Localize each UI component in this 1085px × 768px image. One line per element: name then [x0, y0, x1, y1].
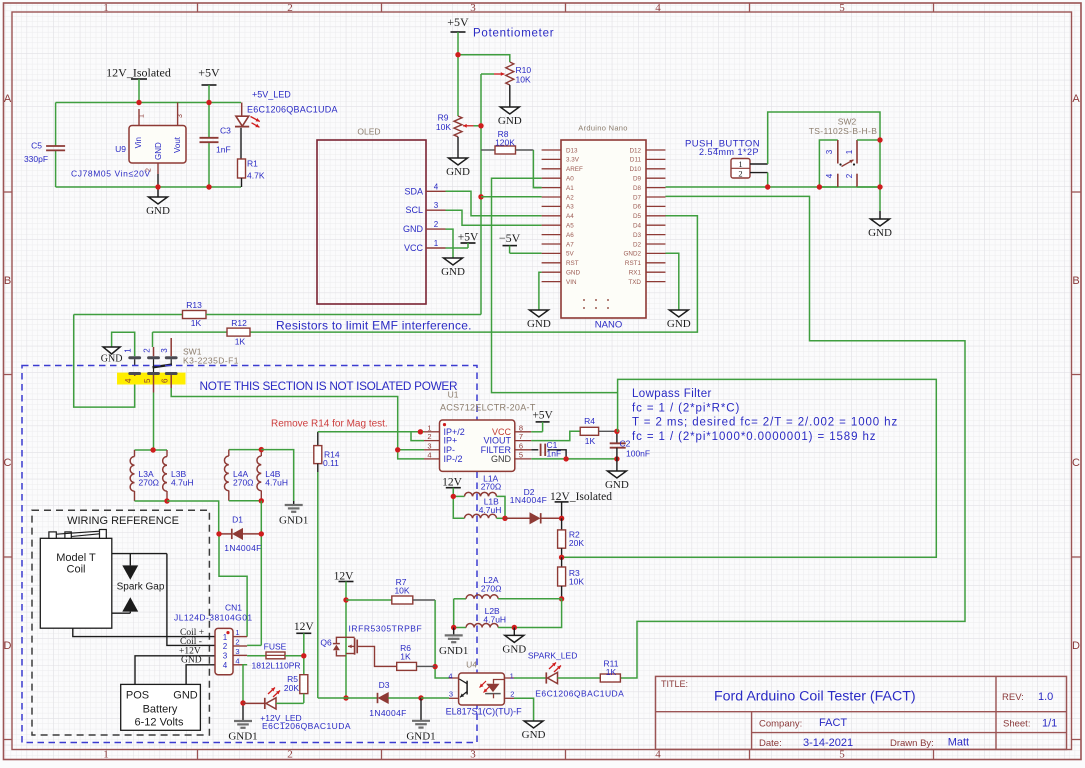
- ground GND under U9: [146, 187, 170, 217]
- svg-text:SDA: SDA: [404, 186, 423, 196]
- svg-text:C5: C5: [31, 141, 42, 151]
- wire push button pin2 to D8: [767, 173, 769, 187]
- svg-text:fc = 1 / (2*pi*R*C): fc = 1 / (2*pi*R*C): [632, 402, 740, 414]
- svg-text:Lowpass Filter: Lowpass Filter: [632, 388, 712, 400]
- wire U9 GND pin: [157, 174, 159, 187]
- svg-text:Q6: Q6: [320, 638, 332, 648]
- svg-text:GND1: GND1: [228, 731, 257, 743]
- svg-text:4: 4: [427, 450, 431, 459]
- svg-text:SCL: SCL: [405, 205, 423, 215]
- svg-text:4: 4: [655, 2, 661, 14]
- mcu NANO Arduino Nano: [542, 124, 666, 331]
- svg-text:1: 1: [845, 149, 854, 154]
- svg-text:120K: 120K: [495, 137, 515, 147]
- svg-text:D6: D6: [633, 204, 642, 211]
- svg-text:+5V: +5V: [447, 15, 469, 29]
- svg-text:FUSE: FUSE: [264, 642, 287, 652]
- svg-text:GND: GND: [403, 224, 424, 234]
- inductor L3A L3B: [130, 447, 194, 503]
- power flag 12V_Isolated at R2: [550, 491, 612, 521]
- svg-text:Battery: Battery: [143, 704, 178, 716]
- svg-text:D: D: [4, 640, 12, 652]
- resistor R2: [558, 518, 585, 560]
- svg-text:1/1: 1/1: [1042, 717, 1057, 729]
- svg-text:D4: D4: [633, 223, 642, 230]
- dashed box non-isolated section: [22, 366, 477, 743]
- svg-text:0.11: 0.11: [323, 458, 339, 468]
- svg-text:Vin: Vin: [134, 137, 143, 148]
- potentiometer R10: [481, 62, 531, 85]
- transformer L2A L2B: [451, 575, 562, 630]
- wire GND battery to CN1: [186, 665, 215, 685]
- svg-text:A: A: [4, 93, 12, 105]
- text Remove R14: [271, 419, 388, 430]
- svg-text:4: 4: [124, 378, 133, 383]
- svg-text:4: 4: [448, 671, 452, 680]
- svg-text:GND: GND: [154, 142, 163, 160]
- svg-text:A4: A4: [566, 213, 574, 220]
- svg-text:1: 1: [223, 633, 228, 642]
- resistor R1: [238, 159, 265, 188]
- text Potentiometer: [473, 28, 554, 40]
- power flag +5V at U1 VCC: [531, 409, 553, 432]
- svg-text:D12: D12: [629, 147, 641, 154]
- ground GND under U4: [522, 721, 546, 741]
- capacitor C3: [200, 103, 232, 188]
- svg-text:Arduino Nano: Arduino Nano: [578, 124, 627, 133]
- svg-text:4: 4: [825, 173, 834, 178]
- wire R14 bottom rail: [318, 472, 346, 698]
- wire A1 stub: [533, 187, 541, 189]
- ground GND under Arduino left: [527, 310, 551, 330]
- svg-text:A: A: [1072, 93, 1080, 105]
- capacitor C5: [24, 141, 65, 165]
- svg-text:T = 2 ms; desired fc= 2/T = 2/: T = 2 ms; desired fc= 2/T = 2/.002 = 100…: [632, 417, 898, 429]
- svg-text:270Ω: 270Ω: [233, 478, 254, 488]
- svg-text:D2: D2: [633, 241, 642, 248]
- svg-text:4.7uH: 4.7uH: [265, 478, 288, 488]
- svg-text:1nF: 1nF: [216, 145, 231, 155]
- wire GND2 pin: [666, 253, 679, 310]
- svg-text:GND: GND: [667, 318, 691, 330]
- svg-text:TITLE:: TITLE:: [661, 679, 688, 689]
- wire GND rail bottom: [56, 186, 241, 188]
- svg-text:VIN: VIN: [566, 279, 577, 286]
- power flag 12V at L1: [442, 477, 463, 497]
- wire SW1 pin1 to GND: [112, 332, 135, 356]
- resistor R13: [74, 300, 481, 328]
- svg-text:Ford Arduino Coil Tester (FACT: Ford Arduino Coil Tester (FACT): [714, 689, 916, 705]
- svg-text:IP-/2: IP-/2: [444, 454, 463, 464]
- svg-text:AREF: AREF: [566, 166, 583, 173]
- svg-text:GND: GND: [522, 729, 546, 741]
- svg-text:10K: 10K: [436, 122, 451, 132]
- svg-text:POS: POS: [126, 689, 149, 701]
- svg-text:1K: 1K: [606, 667, 617, 677]
- svg-text:1: 1: [738, 159, 742, 169]
- svg-text:5V: 5V: [566, 251, 575, 258]
- svg-text:3: 3: [177, 114, 184, 118]
- svg-text:D11: D11: [630, 157, 642, 164]
- svg-text:1K: 1K: [585, 436, 596, 446]
- svg-text:3: 3: [825, 149, 834, 154]
- svg-text:D5: D5: [633, 213, 642, 220]
- svg-text:8: 8: [519, 423, 523, 432]
- svg-text:4.7uH: 4.7uH: [483, 615, 506, 625]
- svg-text:100nF: 100nF: [626, 449, 650, 459]
- svg-text:Potentiometer: Potentiometer: [473, 28, 554, 40]
- wire U1 IP- pair: [395, 447, 424, 459]
- svg-text:A5: A5: [566, 223, 574, 230]
- wire wiper bus vertical: [480, 74, 482, 315]
- inductor L4A L4B: [224, 447, 288, 504]
- svg-text:ACS712ELCTR-20A-T: ACS712ELCTR-20A-T: [440, 403, 536, 413]
- power flag +5V at OLED VCC: [458, 232, 479, 249]
- svg-text:A2: A2: [566, 194, 574, 201]
- svg-text:2: 2: [223, 642, 228, 651]
- svg-text:10K: 10K: [516, 75, 531, 85]
- text resistors note: [276, 319, 472, 333]
- regulator U9: [71, 103, 186, 179]
- power flag -5V at A7: [499, 231, 521, 253]
- svg-text:GND: GND: [181, 655, 202, 665]
- resistor R8: [481, 129, 533, 154]
- ground GND under L2B: [502, 628, 526, 656]
- svg-text:B: B: [4, 275, 11, 287]
- svg-text:GND: GND: [446, 166, 470, 178]
- svg-text:4.7uH: 4.7uH: [479, 505, 502, 515]
- svg-text:A0: A0: [566, 176, 574, 183]
- ground GND1 under CN1: [228, 721, 257, 743]
- svg-text:IRFR5305TRPBF: IRFR5305TRPBF: [349, 624, 423, 634]
- optocoupler U4: [446, 660, 523, 717]
- wire R9 top: [457, 55, 459, 116]
- svg-text:TS-1102S-B-H-B: TS-1102S-B-H-B: [809, 126, 878, 136]
- svg-text:GND1: GND1: [279, 515, 308, 527]
- ground GND right of OLED: [441, 258, 465, 278]
- LED +12V_LED: [243, 688, 351, 732]
- wire +5V to R10: [458, 55, 510, 62]
- svg-text:3: 3: [449, 690, 453, 699]
- display OLED: [317, 127, 446, 305]
- svg-text:3: 3: [470, 2, 476, 14]
- svg-text:4: 4: [434, 182, 439, 191]
- svg-text:5: 5: [839, 2, 845, 14]
- switch SW2: [809, 117, 880, 188]
- svg-text:EL817S1(C)(TU)-F: EL817S1(C)(TU)-F: [446, 707, 523, 717]
- wire SW2 to GND: [879, 140, 881, 219]
- svg-text:R4: R4: [584, 416, 595, 426]
- svg-text:JL124D-38104G01: JL124D-38104G01: [174, 613, 253, 623]
- svg-text:6: 6: [519, 441, 523, 450]
- svg-text:NANO: NANO: [595, 320, 622, 331]
- svg-text:GND: GND: [566, 270, 580, 277]
- svg-text:1: 1: [103, 2, 109, 14]
- svg-text:2.54mm 1*2P: 2.54mm 1*2P: [699, 147, 759, 157]
- svg-text:RST: RST: [566, 260, 579, 267]
- wire U4 pin2 to GND: [514, 698, 534, 721]
- svg-text:CJ78M05 Vin≤20V: CJ78M05 Vin≤20V: [71, 169, 151, 179]
- diode D1: [216, 515, 264, 554]
- text Lowpass Filter notes: [632, 388, 898, 443]
- text WIRING REFERENCE: [67, 515, 179, 527]
- highlight yellow on SW1 pins: [117, 373, 186, 385]
- svg-text:GND1: GND1: [406, 730, 435, 742]
- svg-text:1N4004F: 1N4004F: [369, 708, 406, 718]
- diode D3: [346, 680, 424, 718]
- svg-text:D3: D3: [379, 680, 390, 690]
- wire A0 net: [492, 178, 618, 392]
- svg-text:NOTE THIS SECTION IS NOT ISOLA: NOTE THIS SECTION IS NOT ISOLATED POWER: [200, 379, 458, 393]
- svg-text:2: 2: [142, 348, 151, 353]
- svg-text:D1: D1: [232, 515, 243, 525]
- svg-text:GND: GND: [146, 205, 170, 217]
- wire Coil- to CN1: [167, 554, 215, 646]
- svg-text:Model T: Model T: [56, 552, 96, 564]
- svg-text:−5V: −5V: [499, 231, 521, 245]
- svg-text:RX1: RX1: [629, 270, 642, 277]
- wire SCL to A5: [446, 210, 542, 225]
- resistor R14: [314, 432, 340, 472]
- svg-text:1K: 1K: [191, 318, 202, 328]
- dashed box wiring reference: [32, 510, 209, 735]
- svg-text:4: 4: [235, 656, 239, 665]
- title block: [656, 676, 1067, 749]
- wire CN1 pin3 to FUSE: [247, 655, 266, 657]
- wire R8 to A1: [533, 150, 541, 188]
- wire R3 bottom to L2B: [514, 599, 561, 628]
- svg-text:4.7K: 4.7K: [247, 171, 265, 181]
- svg-text:1: 1: [235, 628, 239, 637]
- svg-text:GND: GND: [101, 354, 123, 365]
- svg-text:Date:: Date:: [759, 738, 782, 749]
- svg-text:2: 2: [287, 749, 293, 761]
- svg-text:3: 3: [434, 201, 439, 210]
- svg-text:6: 6: [161, 378, 170, 383]
- svg-text:1: 1: [434, 239, 439, 248]
- svg-text:+5V: +5V: [532, 409, 553, 421]
- svg-text:R10: R10: [516, 65, 532, 75]
- svg-text:3-14-2021: 3-14-2021: [803, 737, 853, 749]
- svg-text:330pF: 330pF: [24, 154, 48, 164]
- svg-text:6-12 Volts: 6-12 Volts: [135, 717, 184, 729]
- svg-text:1K: 1K: [235, 337, 246, 347]
- junction dots D8 net: [765, 137, 883, 189]
- svg-text:1: 1: [427, 423, 431, 432]
- svg-text:D7: D7: [633, 194, 642, 201]
- svg-text:5: 5: [143, 378, 152, 383]
- svg-text:4: 4: [223, 661, 228, 670]
- transformer L1A L1B: [451, 474, 508, 522]
- capacitor C1: [531, 440, 566, 459]
- svg-text:2: 2: [510, 690, 514, 699]
- svg-text:270Ω: 270Ω: [139, 478, 160, 488]
- ground GND under SW2: [868, 219, 892, 239]
- wire -5V to A7: [510, 252, 542, 254]
- svg-text:3: 3: [470, 749, 476, 761]
- fuse FUSE: [252, 642, 304, 671]
- svg-text:12V: 12V: [294, 621, 315, 633]
- svg-text:270Ω: 270Ω: [481, 584, 502, 594]
- svg-text:E6C1206QBAC1UDA: E6C1206QBAC1UDA: [247, 104, 338, 114]
- svg-text:OLED: OLED: [357, 127, 380, 137]
- svg-text:GND: GND: [498, 115, 522, 127]
- svg-text:REV:: REV:: [1002, 692, 1024, 703]
- svg-text:Spark Gap: Spark Gap: [117, 582, 165, 593]
- connector PUSH_BUTTON: [685, 139, 768, 179]
- svg-text:+5V_LED: +5V_LED: [252, 90, 291, 100]
- svg-text:2: 2: [845, 173, 854, 178]
- wire Arduino GND pin: [539, 272, 542, 310]
- ground GND1 under D3: [406, 698, 435, 742]
- switch SW1: [124, 338, 239, 393]
- ground GND under Arduino right: [667, 310, 691, 330]
- wire Coil+ to CN1: [73, 628, 215, 636]
- svg-text:CN1: CN1: [225, 603, 242, 613]
- svg-text:R12: R12: [231, 318, 247, 328]
- wire U1 IP+ pair: [411, 432, 424, 441]
- svg-text:2: 2: [738, 168, 742, 178]
- svg-text:Resistors to limit EMF interfe: Resistors to limit EMF interference.: [276, 319, 472, 333]
- wire L4 bottom to CN1 pin2: [247, 501, 261, 646]
- svg-text:D8: D8: [633, 185, 642, 192]
- svg-text:GND1: GND1: [439, 645, 468, 657]
- diode D2: [505, 487, 562, 524]
- wire SW1 pin6 to U1 IP-: [171, 388, 398, 450]
- power flag 12V at FUSE: [294, 621, 315, 656]
- svg-text:GND2: GND2: [624, 251, 642, 258]
- wire R14 top to U1 IP+: [318, 429, 424, 434]
- wire OLED VCC: [446, 247, 469, 249]
- svg-text:GND: GND: [491, 454, 512, 464]
- svg-text:+5V: +5V: [458, 232, 479, 244]
- svg-text:E6C1206QBAC1UDA: E6C1206QBAC1UDA: [535, 688, 624, 698]
- transistor Q6: [320, 624, 422, 656]
- capacitor C2: [610, 429, 650, 459]
- svg-text:D10: D10: [629, 166, 641, 173]
- svg-text:1: 1: [139, 114, 146, 118]
- svg-text:RST1: RST1: [625, 260, 642, 267]
- wire C5 branch: [55, 103, 57, 188]
- svg-text:3: 3: [160, 348, 169, 353]
- svg-text:U9: U9: [115, 144, 126, 154]
- svg-text:1N4004F: 1N4004F: [510, 495, 547, 505]
- svg-text:C: C: [4, 457, 12, 469]
- svg-text:1812L110PR: 1812L110PR: [252, 661, 301, 671]
- wire +12V battery to CN1: [135, 656, 215, 685]
- junction dots potentiometer: [455, 52, 483, 200]
- svg-text:1.0: 1.0: [1038, 691, 1053, 703]
- svg-text:D9: D9: [633, 176, 642, 183]
- svg-text:GND: GND: [502, 643, 526, 655]
- svg-text:GND: GND: [527, 318, 551, 330]
- svg-text:3.3V: 3.3V: [566, 157, 580, 164]
- svg-text:C2: C2: [620, 439, 631, 449]
- wire OLED GND: [446, 229, 454, 258]
- wire R12 to SW1 pin2: [152, 332, 154, 347]
- text E6C1206QBAC1UDA for +5V_LED: [247, 104, 338, 114]
- power flag 12V_Isolated: [106, 66, 171, 103]
- svg-text:1: 1: [510, 671, 514, 680]
- svg-text:20K: 20K: [284, 683, 299, 693]
- svg-text:Matt: Matt: [948, 736, 969, 748]
- power flag +5V regulator: [198, 66, 220, 103]
- wire L3 to D1 and CN1 pin1: [167, 501, 247, 637]
- svg-text:1: 1: [103, 749, 109, 761]
- svg-text:Remove R14 for Mag test.: Remove R14 for Mag test.: [271, 419, 388, 430]
- svg-text:A7: A7: [566, 241, 574, 248]
- svg-text:12V: 12V: [442, 477, 463, 489]
- svg-text:SPARK_LED: SPARK_LED: [528, 651, 577, 661]
- junction dots regulator: [136, 100, 211, 190]
- text NOTE THIS SECTION IS NOT ISOLATED POWER: [200, 379, 458, 393]
- svg-text:A3: A3: [566, 204, 574, 211]
- svg-text:fc = 1 / (2*pi*1000*0.0000001): fc = 1 / (2*pi*1000*0.0000001) = 1589 hz: [632, 431, 876, 443]
- svg-text:1K: 1K: [400, 652, 411, 662]
- svg-text:+5V: +5V: [198, 66, 220, 80]
- svg-text:Coil: Coil: [67, 564, 86, 576]
- svg-text:A6: A6: [566, 232, 574, 239]
- svg-text:4: 4: [655, 749, 661, 761]
- svg-text:D13: D13: [566, 147, 578, 154]
- ground GND under R9: [446, 137, 470, 178]
- wire R13 to SW1 pin4: [74, 315, 135, 408]
- svg-text:E6C1206QBAC1UDA: E6C1206QBAC1UDA: [262, 721, 351, 731]
- wire SW1 pin5 to L3: [153, 393, 155, 451]
- wire VIOUT to R4: [531, 431, 580, 440]
- wire L4 top to GND1: [261, 450, 293, 505]
- svg-text:1: 1: [124, 348, 133, 353]
- ground GND under C2: [605, 459, 629, 491]
- wire LED to R1: [240, 128, 242, 159]
- svg-text:5: 5: [519, 450, 523, 459]
- box Model T Coil: [40, 530, 112, 629]
- svg-text:Sheet:: Sheet:: [1003, 718, 1030, 729]
- svg-text:WIRING REFERENCE: WIRING REFERENCE: [67, 515, 179, 527]
- svg-text:4.7uH: 4.7uH: [171, 478, 194, 488]
- svg-text:1nF: 1nF: [547, 449, 562, 459]
- wire A2 to bus: [481, 196, 542, 198]
- current sensor U1 ACS712: [424, 390, 536, 472]
- wire VIOUT filtered net rectangle: [562, 379, 937, 557]
- svg-text:FACT: FACT: [819, 717, 847, 729]
- wire Q6 drain rail: [343, 597, 348, 700]
- ground GND1 under L2A: [439, 628, 468, 657]
- svg-text:GND: GND: [868, 227, 892, 239]
- svg-text:D3: D3: [633, 232, 642, 239]
- svg-text:R1: R1: [247, 159, 258, 169]
- connector CN1: [174, 603, 253, 675]
- svg-text:GND: GND: [441, 266, 465, 278]
- svg-text:D: D: [1072, 640, 1080, 652]
- svg-text:R13: R13: [186, 300, 202, 310]
- wire D7 net to R11: [620, 196, 965, 678]
- svg-text:10K: 10K: [569, 577, 584, 587]
- svg-text:10K: 10K: [394, 586, 409, 596]
- svg-text:Company:: Company:: [759, 718, 802, 729]
- svg-text:TXD: TXD: [628, 279, 641, 286]
- svg-text:2: 2: [427, 432, 431, 441]
- svg-text:12V_Isolated: 12V_Isolated: [106, 66, 171, 80]
- spark gap: [112, 554, 167, 614]
- svg-text:5: 5: [839, 749, 845, 761]
- svg-text:U1: U1: [448, 390, 459, 400]
- ground GND left of SW1: [101, 347, 123, 365]
- resistor R12: [153, 318, 251, 347]
- wire D8 net: [666, 186, 881, 188]
- resistor R7: [346, 577, 435, 604]
- svg-text:2: 2: [235, 638, 239, 647]
